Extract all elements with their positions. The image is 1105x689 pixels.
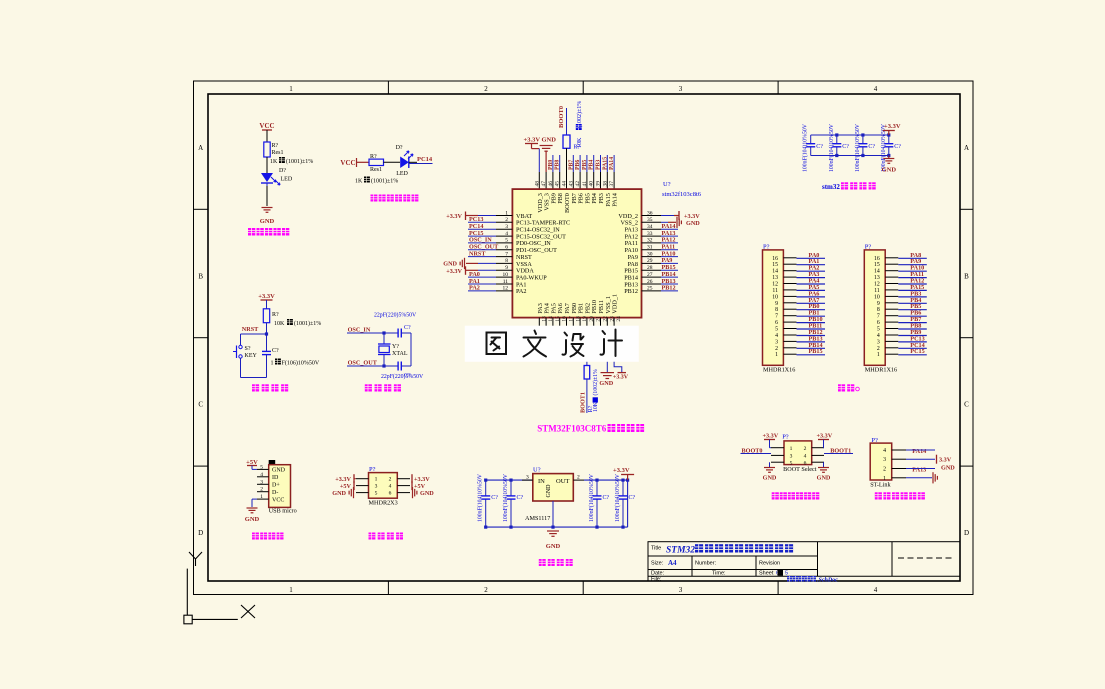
svg-text:5: 5 [775, 327, 778, 333]
svg-text:GND: GND [260, 218, 275, 225]
svg-text:PC14: PC14 [417, 156, 433, 163]
svg-text:4: 4 [874, 85, 878, 93]
svg-text:13: 13 [874, 275, 880, 281]
svg-text:GND: GND [686, 220, 700, 227]
svg-text:PA13: PA13 [912, 466, 926, 473]
svg-text:VCC: VCC [259, 122, 274, 130]
svg-text:22pF(220)5%50V: 22pF(220)5%50V [381, 373, 424, 380]
svg-text:8: 8 [877, 307, 880, 313]
svg-text:GND: GND [599, 380, 613, 387]
svg-text:2: 2 [260, 487, 263, 493]
svg-text:XTAL: XTAL [392, 351, 408, 357]
svg-text:11: 11 [772, 288, 778, 294]
svg-text:41: 41 [582, 181, 588, 187]
svg-text:PB5: PB5 [582, 160, 588, 170]
svg-text:14: 14 [874, 269, 880, 275]
svg-text:BOOT0: BOOT0 [558, 106, 565, 128]
svg-text:GND: GND [546, 484, 552, 498]
svg-text:5: 5 [877, 327, 880, 333]
svg-text:GND: GND [443, 260, 457, 267]
svg-text:GND: GND [542, 137, 557, 144]
svg-text:(1001)±1%: (1001)±1% [371, 178, 398, 185]
svg-text:GND: GND [272, 468, 286, 474]
svg-text:PB15: PB15 [809, 348, 823, 355]
svg-text:3: 3 [883, 457, 886, 463]
svg-text:VCC: VCC [340, 159, 355, 167]
svg-text:27: 27 [647, 272, 653, 278]
svg-text:39: 39 [596, 181, 602, 187]
svg-text:1K: 1K [355, 179, 363, 185]
svg-text:+3.3V: +3.3V [763, 433, 779, 440]
svg-text:C?: C? [816, 144, 823, 150]
svg-text:ST-Link: ST-Link [870, 482, 891, 489]
svg-text:D: D [964, 529, 969, 537]
svg-text:29: 29 [647, 258, 653, 264]
svg-text:5: 5 [505, 238, 508, 244]
svg-text:44: 44 [562, 181, 568, 187]
svg-text:3: 3 [679, 586, 683, 594]
svg-text:MHDR1X16: MHDR1X16 [865, 367, 897, 374]
svg-text:PB9: PB9 [548, 160, 554, 170]
svg-text:30: 30 [647, 251, 653, 257]
svg-text:100nF(104)10%50V: 100nF(104)10%50V [502, 473, 509, 522]
svg-text:C?: C? [272, 348, 279, 354]
svg-text:GND: GND [546, 543, 561, 550]
svg-text:4: 4 [874, 586, 878, 594]
svg-text:3: 3 [775, 339, 778, 345]
svg-text:P?: P? [782, 434, 789, 441]
svg-text:1: 1 [271, 361, 274, 367]
svg-text:Title: Title [651, 546, 661, 552]
svg-text:15: 15 [874, 262, 880, 268]
svg-text:(1001)±1%: (1001)±1% [294, 320, 321, 327]
svg-text:16: 16 [874, 256, 880, 262]
svg-text:+3.3V: +3.3V [817, 433, 833, 440]
svg-text:2: 2 [804, 446, 807, 452]
svg-text:2: 2 [484, 586, 488, 594]
svg-text:C?: C? [404, 325, 411, 331]
svg-text:Res1: Res1 [272, 150, 284, 156]
svg-text:ID: ID [272, 475, 279, 481]
svg-text:6: 6 [775, 320, 778, 326]
svg-text:14: 14 [772, 269, 778, 275]
svg-text:+3.3V: +3.3V [524, 137, 541, 144]
svg-text:GND: GND [332, 490, 346, 497]
svg-text:STM32F103C8T6: STM32F103C8T6 [537, 424, 607, 434]
svg-text:5: 5 [375, 491, 378, 497]
svg-text:PB7: PB7 [568, 160, 574, 170]
svg-text:2: 2 [484, 85, 488, 93]
svg-text:10: 10 [874, 294, 880, 300]
svg-text:38: 38 [602, 181, 608, 187]
svg-text:D+: D+ [272, 483, 280, 489]
svg-text:D-: D- [272, 490, 278, 496]
svg-text:File:: File: [651, 577, 662, 583]
svg-text:Revision: Revision [759, 561, 780, 567]
svg-text:26: 26 [647, 279, 653, 285]
svg-text:Number:: Number: [695, 561, 717, 567]
svg-text:VCC: VCC [272, 497, 284, 503]
svg-text:LED: LED [281, 177, 293, 183]
svg-text:C?: C? [603, 495, 610, 501]
svg-text:46: 46 [548, 181, 554, 187]
svg-text:OSC_IN: OSC_IN [348, 327, 371, 334]
svg-text:PB6: PB6 [575, 160, 581, 170]
svg-text:1: 1 [775, 352, 778, 358]
svg-text:3: 3 [790, 454, 793, 460]
svg-text:9: 9 [505, 265, 508, 271]
svg-text:4: 4 [804, 454, 807, 460]
svg-text:+3.3V: +3.3V [613, 467, 630, 474]
svg-text:C?: C? [842, 144, 849, 150]
svg-text:7: 7 [505, 251, 508, 257]
svg-text:PB12: PB12 [624, 288, 638, 295]
svg-text:+3.3V: +3.3V [258, 293, 275, 300]
svg-text:2: 2 [389, 477, 392, 483]
svg-text:MHDR2X3: MHDR2X3 [369, 500, 398, 507]
svg-text:PA15: PA15 [602, 157, 608, 170]
svg-text:C?: C? [629, 495, 636, 501]
svg-text:45: 45 [555, 181, 561, 187]
svg-text:40: 40 [589, 181, 595, 187]
svg-text:C?: C? [517, 495, 524, 501]
svg-text:7: 7 [877, 314, 880, 320]
svg-text:12: 12 [503, 286, 509, 292]
svg-text:1: 1 [505, 210, 508, 216]
svg-text:stm32: stm32 [822, 183, 840, 191]
svg-text:Date:: Date: [651, 570, 665, 576]
svg-text:4: 4 [775, 333, 778, 339]
svg-text:PA14: PA14 [912, 448, 926, 455]
svg-text:+3.3V: +3.3V [884, 123, 901, 130]
svg-text:47: 47 [541, 181, 547, 187]
svg-text:4: 4 [877, 333, 880, 339]
svg-text:33: 33 [647, 231, 653, 237]
svg-text:13: 13 [772, 275, 778, 281]
svg-text:15: 15 [772, 262, 778, 268]
svg-text:GND: GND [245, 516, 260, 523]
svg-text:+5V: +5V [340, 483, 352, 490]
svg-text:+3.3V: +3.3V [446, 213, 462, 220]
svg-text:4: 4 [883, 448, 886, 454]
svg-text:Time:: Time: [712, 570, 726, 576]
svg-text:D?: D? [279, 168, 286, 174]
svg-text:OUT: OUT [556, 478, 569, 485]
svg-text:43: 43 [568, 181, 574, 187]
svg-text:3: 3 [260, 479, 263, 485]
svg-text:10: 10 [772, 294, 778, 300]
svg-text:Sheet: Sheet [759, 570, 774, 576]
svg-text:2: 2 [505, 217, 508, 223]
svg-text:PB4: PB4 [589, 160, 595, 170]
svg-text:F(106)10%50V: F(106)10%50V [282, 360, 320, 367]
svg-text:1: 1 [289, 85, 293, 93]
svg-text:35: 35 [647, 217, 653, 223]
svg-text:3: 3 [505, 224, 508, 230]
svg-text:8: 8 [775, 307, 778, 313]
svg-text:PC15: PC15 [910, 348, 924, 355]
svg-text:24: 24 [616, 316, 622, 322]
svg-text:+3.3V: +3.3V [446, 268, 462, 275]
svg-text:10: 10 [503, 272, 509, 278]
svg-text:PA14: PA14 [609, 157, 615, 170]
svg-text:S?: S? [245, 346, 251, 352]
svg-text:GND: GND [763, 475, 777, 482]
svg-text:(1001)±1%: (1001)±1% [286, 158, 313, 165]
svg-text:A: A [198, 144, 203, 152]
svg-text:PA2: PA2 [516, 288, 526, 295]
svg-text:GND: GND [817, 475, 831, 482]
svg-text:BOOT Select: BOOT Select [783, 466, 817, 473]
svg-text:6: 6 [389, 491, 392, 497]
svg-text:(1002)±1%: (1002)±1% [576, 101, 583, 128]
svg-text:1: 1 [260, 494, 263, 500]
svg-text:9: 9 [775, 301, 778, 307]
svg-text:11: 11 [874, 288, 880, 294]
svg-text:BOOT1: BOOT1 [580, 392, 587, 413]
svg-text:11: 11 [503, 279, 509, 285]
svg-text:10K: 10K [274, 321, 285, 327]
svg-text:28: 28 [647, 265, 653, 271]
svg-text:.SchDoc: .SchDoc [817, 577, 838, 583]
svg-text:U?: U? [663, 181, 671, 188]
svg-text:PB8: PB8 [555, 160, 561, 170]
svg-text:6: 6 [877, 320, 880, 326]
svg-text:8: 8 [505, 258, 508, 264]
svg-text:16: 16 [772, 256, 778, 262]
svg-text:R?: R? [272, 143, 279, 149]
svg-text:5: 5 [785, 570, 788, 576]
svg-text:B: B [964, 272, 969, 280]
svg-text:48: 48 [534, 181, 540, 187]
svg-text:GND: GND [941, 464, 955, 471]
svg-text:AMS1117: AMS1117 [525, 515, 550, 522]
svg-text:2: 2 [877, 346, 880, 352]
svg-text:(1002)±1%: (1002)±1% [592, 369, 599, 396]
svg-text:A4: A4 [668, 559, 677, 567]
svg-text:R?: R? [370, 154, 377, 160]
svg-text:C?: C? [868, 144, 875, 150]
svg-text:12: 12 [874, 282, 880, 288]
svg-text:OSC_OUT: OSC_OUT [348, 360, 378, 367]
svg-text:3.3V: 3.3V [939, 457, 952, 464]
svg-text:PB3: PB3 [596, 160, 602, 170]
svg-text:LED: LED [396, 171, 408, 177]
svg-text:32: 32 [647, 238, 653, 244]
svg-text:1K: 1K [270, 159, 278, 165]
svg-text:12: 12 [772, 282, 778, 288]
svg-text:4: 4 [505, 231, 508, 237]
svg-text:10K: 10K [593, 401, 599, 412]
svg-text:C: C [198, 401, 203, 409]
svg-text:22pF(220)5%50V: 22pF(220)5%50V [374, 312, 417, 319]
svg-text:25: 25 [647, 286, 653, 292]
svg-text:6: 6 [505, 245, 508, 251]
svg-text:37: 37 [609, 181, 615, 187]
svg-text:Size:: Size: [651, 561, 664, 567]
svg-text:C?: C? [894, 144, 901, 150]
svg-text:100nF(104)10%50V: 100nF(104)10%50V [477, 473, 484, 522]
svg-text:A: A [964, 144, 969, 152]
svg-text:7: 7 [775, 314, 778, 320]
svg-text:U?: U? [533, 467, 541, 474]
svg-text:+5V: +5V [414, 483, 426, 490]
svg-text:GND: GND [420, 490, 434, 497]
svg-text:STM32: STM32 [666, 546, 695, 556]
svg-text:100nF(104)10%50V: 100nF(104)10%50V [802, 123, 809, 172]
svg-text:IN: IN [538, 478, 545, 485]
svg-text:NRST: NRST [242, 326, 259, 333]
svg-text:10K: 10K [577, 137, 583, 148]
svg-text:3: 3 [375, 484, 378, 490]
svg-text:KEY: KEY [245, 353, 258, 359]
svg-text:4: 4 [260, 472, 263, 478]
svg-text:1: 1 [375, 477, 378, 483]
svg-text:9: 9 [877, 301, 880, 307]
svg-text:3: 3 [679, 85, 683, 93]
svg-text:31: 31 [647, 245, 653, 251]
svg-text:100nF(104)10%50V: 100nF(104)10%50V [854, 123, 861, 172]
svg-text:Res1: Res1 [370, 167, 382, 173]
svg-text:MHDR1X16: MHDR1X16 [763, 367, 795, 374]
svg-text:1: 1 [877, 352, 880, 358]
svg-text:36: 36 [647, 210, 653, 216]
svg-text:+3.3V: +3.3V [613, 375, 629, 381]
svg-text:1: 1 [790, 446, 793, 452]
svg-text:2: 2 [883, 467, 886, 473]
svg-text:42: 42 [575, 181, 581, 187]
svg-text:PA14: PA14 [612, 193, 619, 207]
svg-text:4: 4 [389, 484, 392, 490]
svg-text:3: 3 [877, 339, 880, 345]
svg-text:VDD_1: VDD_1 [612, 294, 619, 314]
svg-text:34: 34 [647, 224, 653, 230]
svg-text:C?: C? [491, 495, 498, 501]
svg-text:100nF(104)10%50V: 100nF(104)10%50V [828, 123, 835, 172]
svg-text:D: D [198, 529, 203, 537]
svg-text:Y?: Y? [392, 344, 399, 350]
svg-text:2: 2 [775, 346, 778, 352]
svg-text:GND: GND [882, 167, 897, 174]
svg-text:R?: R? [272, 312, 279, 318]
svg-text:stm32f103c8t6: stm32f103c8t6 [662, 191, 702, 198]
svg-text:D?: D? [396, 145, 403, 151]
svg-text:1: 1 [289, 586, 293, 594]
svg-text:5: 5 [260, 464, 263, 470]
svg-text:C: C [964, 401, 969, 409]
svg-text:B: B [198, 272, 203, 280]
svg-text:USB micro: USB micro [269, 508, 297, 515]
